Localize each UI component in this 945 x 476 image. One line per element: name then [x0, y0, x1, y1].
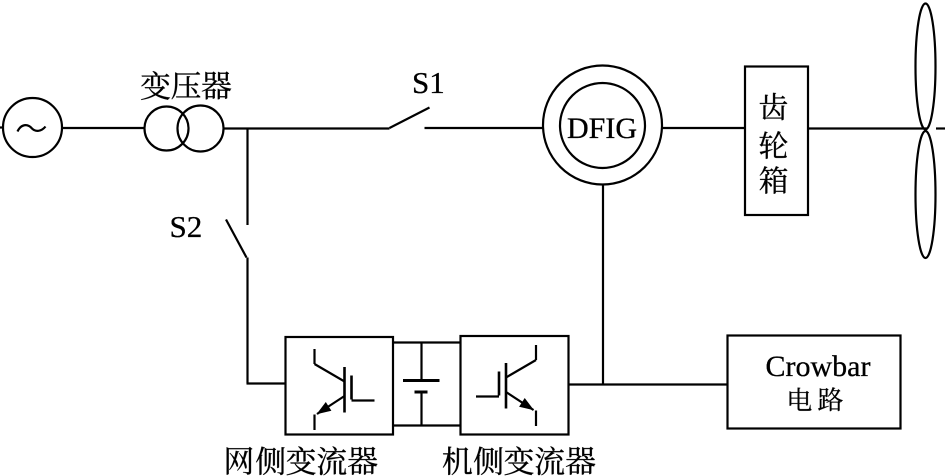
IGBT Q2 collector diagonal — [506, 360, 536, 378]
wire S2 to corner — [246, 258, 248, 384]
wire S1 to DFIG — [425, 127, 544, 129]
DC link top rail — [393, 341, 461, 343]
wire DFIG rotor down to junction — [602, 185, 604, 385]
label gearbox char 箱 — [760, 166, 788, 194]
wire source to transformer — [62, 127, 145, 129]
DC link bottom rail — [393, 424, 461, 426]
turbine blade lower — [916, 131, 936, 258]
label crowbar-circuit char 路 — [818, 387, 843, 411]
label transformer char 器 — [202, 72, 231, 100]
AC source G1 circle — [3, 98, 62, 157]
transformer T1 secondary circle — [178, 106, 224, 152]
capacitor C1 bottom lead — [420, 393, 422, 426]
wire transformer to S1 left contact — [224, 127, 390, 129]
wire stub left edge — [0, 126, 3, 128]
label machine-side-converter char 变 — [505, 446, 534, 475]
IGBT Q1 emitter diagonal — [317, 396, 345, 414]
machine-side converter box — [461, 336, 569, 435]
IGBT Q2 emitter diagonal — [506, 392, 534, 410]
wire DFIG to gearbox — [662, 127, 745, 129]
label grid-side-converter char 器 — [348, 447, 377, 475]
label grid-side-converter char 网 — [227, 447, 253, 475]
wire corner to grid-side converter — [247, 382, 286, 384]
IGBT Q1 emitter lead — [313, 415, 315, 431]
crowbar box — [728, 336, 901, 429]
label crowbar-circuit char 电 — [790, 388, 812, 411]
capacitor C1 short plate — [415, 391, 428, 394]
gearbox box — [745, 67, 808, 216]
IGBT Q2 collector lead — [535, 345, 537, 360]
svg-text:S2: S2 — [170, 209, 203, 244]
transformer T1 primary circle — [145, 107, 189, 151]
label grid-side-converter char 侧 — [256, 447, 285, 475]
svg-text:Crowbar: Crowbar — [766, 350, 871, 383]
label machine-side-converter char 器 — [566, 447, 595, 475]
label transformer char 变 — [141, 71, 170, 100]
shaft gearbox to wind turbine hub — [808, 127, 927, 129]
label transformer char 压 — [172, 72, 201, 100]
IGBT Q1 main bar — [343, 367, 346, 413]
turbine blade upper — [916, 4, 936, 130]
label machine-side-converter char 侧 — [474, 447, 503, 475]
label machine-side-converter char 机 — [443, 447, 472, 475]
IGBT Q2 gate bar — [498, 372, 501, 396]
IGBT Q1 collector lead — [313, 349, 315, 364]
IGBT Q2 emitter arrow — [519, 398, 534, 410]
shaft stub right edge — [936, 127, 945, 129]
IGBT Q2 main bar — [505, 363, 508, 409]
DFIG machine outer circle — [543, 66, 662, 185]
wire machine-side converter to crowbar — [569, 383, 728, 385]
switch S1 blade — [390, 108, 430, 129]
IGBT Q2 gate lead — [476, 395, 499, 397]
label grid-side-converter char 流 — [318, 446, 347, 475]
svg-text:S1: S1 — [412, 65, 445, 100]
wire junction down to S2 — [246, 129, 248, 226]
DFIG machine inner circle — [560, 83, 645, 168]
switch S2 blade — [226, 220, 247, 258]
IGBT Q1 gate lead — [352, 399, 375, 401]
IGBT Q1 gate bar — [350, 376, 353, 400]
label machine-side-converter char 流 — [535, 446, 564, 475]
capacitor C1 top lead — [420, 343, 422, 380]
label grid-side-converter char 变 — [287, 446, 316, 475]
capacitor C1 long plate — [403, 379, 440, 382]
label gearbox char 齿 — [760, 93, 788, 120]
IGBT Q1 collector diagonal — [315, 364, 345, 382]
label gearbox char 轮 — [760, 131, 788, 159]
grid-side converter box — [286, 337, 394, 435]
svg-text:DFIG: DFIG — [567, 112, 637, 145]
IGBT Q1 emitter arrow — [317, 402, 332, 414]
AC source sine symbol — [18, 125, 46, 131]
IGBT Q2 emitter lead — [535, 411, 537, 427]
